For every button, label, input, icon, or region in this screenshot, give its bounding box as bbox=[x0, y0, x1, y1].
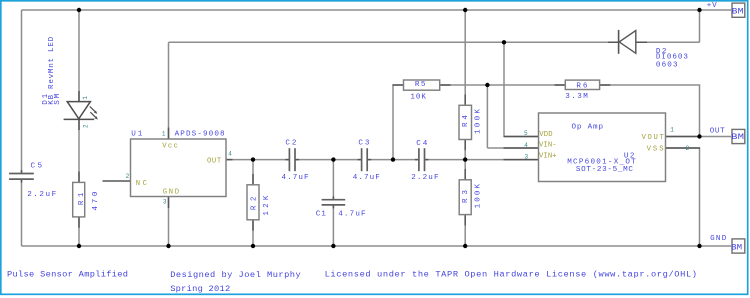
pin NC stub U1 bbox=[103, 180, 131, 182]
svg-text:2: 2 bbox=[126, 173, 130, 180]
svg-text:GND: GND bbox=[163, 189, 179, 197]
svg-text:BM: BM bbox=[731, 132, 744, 142]
svg-text:1: 1 bbox=[162, 131, 166, 138]
svg-text:2.2uF: 2.2uF bbox=[411, 174, 439, 182]
svg-text:3: 3 bbox=[163, 198, 167, 205]
op-amp U2 MCP6001 bbox=[539, 113, 666, 182]
junction (333,246) bbox=[331, 244, 335, 248]
svg-text:Pulse Sensor Amplified: Pulse Sensor Amplified bbox=[7, 270, 128, 280]
svg-text:R5: R5 bbox=[415, 81, 426, 89]
svg-text:2.2uF: 2.2uF bbox=[27, 191, 56, 199]
junction (333,159.6) bbox=[331, 157, 335, 161]
svg-text:Op Amp: Op Amp bbox=[572, 124, 604, 132]
pin stubs R6 bbox=[555, 84, 611, 86]
pin stubs C4 bbox=[415, 159, 429, 161]
svg-text:10K: 10K bbox=[410, 94, 426, 102]
svg-text:4: 4 bbox=[228, 151, 232, 158]
wire Vcc net bbox=[169, 42, 619, 139]
junction (699.5,246) bbox=[697, 244, 701, 248]
svg-text:4.7uF: 4.7uF bbox=[338, 211, 366, 219]
LED D1 bbox=[64, 102, 98, 120]
junction (168,246) bbox=[166, 244, 170, 248]
wire signal rail bbox=[226, 159, 539, 161]
pin stubs C2 bbox=[285, 159, 299, 161]
svg-text:VSS: VSS bbox=[647, 146, 664, 154]
capacitor C1 bbox=[322, 200, 346, 205]
resistor R3 bbox=[459, 180, 471, 215]
svg-text:U1: U1 bbox=[131, 131, 142, 139]
svg-text:Licensed under the TAPR Open H: Licensed under the TAPR Open Hardware Li… bbox=[325, 269, 697, 279]
resistor R1 bbox=[73, 182, 85, 217]
junction (487,85) bbox=[485, 83, 489, 87]
pin stubs C1 bbox=[332, 196, 334, 208]
svg-text:5: 5 bbox=[524, 130, 528, 137]
wire GND rail bbox=[22, 245, 732, 247]
svg-text:C5: C5 bbox=[31, 163, 43, 171]
svg-text:OUT: OUT bbox=[207, 158, 222, 166]
label D1 bbox=[42, 36, 62, 104]
svg-text:Designed by Joel Murphy: Designed by Joel Murphy bbox=[170, 270, 301, 280]
junction (253,246) bbox=[251, 244, 255, 248]
junction (699.5,136.5) bbox=[697, 134, 701, 138]
junction (465,159.6) bbox=[463, 157, 467, 161]
junction (79,246) bbox=[77, 244, 81, 248]
svg-text:100K: 100K bbox=[474, 109, 482, 134]
svg-text:3: 3 bbox=[525, 153, 529, 160]
svg-text:SOT-23-5_MC: SOT-23-5_MC bbox=[576, 166, 633, 174]
wire C1 column bbox=[332, 160, 334, 246]
wire R2 column bbox=[252, 160, 254, 246]
resistor R5 bbox=[404, 80, 440, 90]
svg-text:Spring 2012: Spring 2012 bbox=[170, 284, 230, 294]
capacitor C3 bbox=[362, 148, 368, 171]
svg-text:Vcc: Vcc bbox=[162, 143, 178, 151]
svg-text:0603: 0603 bbox=[656, 61, 678, 69]
port OUT bbox=[732, 129, 745, 143]
resistor R6 bbox=[565, 80, 599, 89]
svg-text:APDS-9008: APDS-9008 bbox=[175, 131, 225, 139]
wire VOUT to OUT port bbox=[666, 136, 732, 138]
resistor R4 bbox=[459, 105, 472, 139]
capacitor C4 bbox=[419, 148, 425, 171]
svg-text:NC: NC bbox=[136, 180, 148, 188]
pin stubs C5 bbox=[21, 170, 23, 183]
wire VSS to GND bbox=[666, 148, 700, 246]
svg-text:VIN-: VIN- bbox=[539, 141, 557, 149]
svg-text:1: 1 bbox=[670, 126, 674, 133]
svg-text:12K: 12K bbox=[263, 195, 271, 215]
pin stubs R2 bbox=[252, 174, 254, 231]
pin stubs U1 bbox=[169, 128, 233, 209]
junction (253,159.6) bbox=[251, 157, 255, 161]
pin stubs R1 bbox=[78, 172, 80, 228]
wire U1 GND pin bbox=[168, 197, 170, 247]
pin stubs C3 bbox=[358, 159, 372, 161]
pin stubs R4 bbox=[464, 95, 466, 151]
svg-text:100K: 100K bbox=[474, 183, 482, 208]
junction (79,10) bbox=[77, 8, 81, 12]
junction (393,159.6) bbox=[391, 157, 395, 161]
svg-text:4.7uF: 4.7uF bbox=[353, 174, 380, 182]
svg-text:4.7uF: 4.7uF bbox=[282, 174, 309, 182]
svg-text:R6: R6 bbox=[576, 83, 587, 91]
svg-text:C1: C1 bbox=[316, 211, 326, 219]
diode D2 bbox=[619, 30, 636, 54]
svg-text:1: 1 bbox=[82, 96, 89, 100]
svg-text:C3: C3 bbox=[358, 139, 369, 147]
wire R6 to VOUT bbox=[600, 85, 700, 137]
svg-text:2: 2 bbox=[686, 145, 690, 152]
resistor R2 bbox=[247, 185, 259, 220]
svg-text:GND: GND bbox=[710, 235, 727, 243]
wire C5 column bbox=[21, 10, 23, 246]
port +V bbox=[732, 3, 745, 17]
svg-text:SM: SM bbox=[54, 93, 62, 104]
pin stubs D1 bbox=[78, 91, 80, 130]
wire +V top rail bbox=[22, 9, 732, 11]
svg-text:3.3M: 3.3M bbox=[565, 93, 588, 101]
svg-text:VIN+: VIN+ bbox=[539, 152, 557, 160]
wire R4/R3 column bbox=[464, 10, 466, 246]
port GND bbox=[732, 239, 745, 253]
svg-text:4: 4 bbox=[524, 142, 528, 149]
svg-text:VOUT: VOUT bbox=[642, 134, 665, 142]
svg-text:C2: C2 bbox=[285, 139, 296, 147]
wire D2 to +V bbox=[637, 10, 700, 42]
pin stubs U2 bbox=[504, 137, 701, 160]
capacitor C2 bbox=[289, 148, 295, 171]
svg-text:BM: BM bbox=[731, 243, 742, 253]
pin stubs R5 bbox=[393, 84, 451, 86]
svg-text:2: 2 bbox=[82, 124, 89, 128]
junction (465,10) bbox=[463, 8, 467, 12]
pin stubs D2 bbox=[608, 41, 647, 43]
svg-text:VDD: VDD bbox=[539, 131, 552, 139]
svg-text:OUT: OUT bbox=[710, 128, 725, 136]
svg-text:+V: +V bbox=[707, 2, 717, 10]
pin stubs R3 bbox=[464, 169, 466, 225]
junction (504,42) bbox=[502, 40, 506, 44]
capacitor C5 bbox=[9, 174, 34, 180]
junction (699.5,10) bbox=[697, 8, 701, 12]
wire D1/R1 column bbox=[78, 10, 80, 246]
svg-text:BM: BM bbox=[732, 7, 744, 17]
svg-text:DI0603: DI0603 bbox=[656, 54, 688, 62]
IC U1 APDS-9008 bbox=[131, 139, 227, 197]
wire R5 feedback loop bbox=[393, 85, 565, 160]
svg-text:C4: C4 bbox=[416, 140, 427, 148]
junction (465,246) bbox=[463, 244, 467, 248]
svg-text:470: 470 bbox=[92, 191, 100, 210]
